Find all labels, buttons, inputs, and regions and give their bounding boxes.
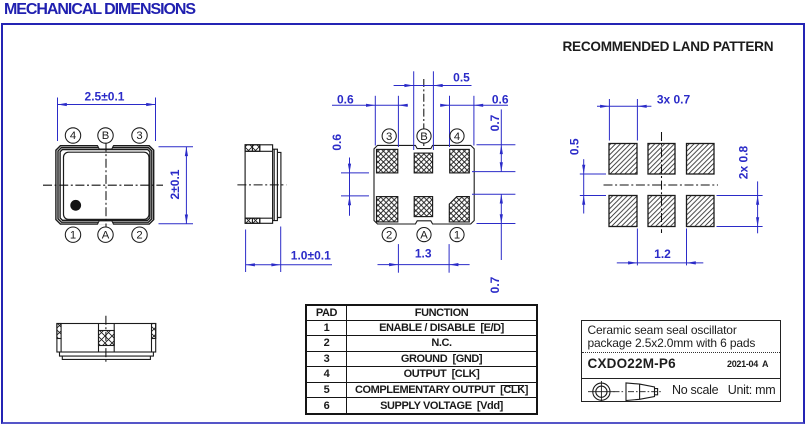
svg-text:B: B [102, 130, 110, 142]
dim 1.3 (bottom) [378, 244, 470, 273]
svg-text:3x 0.7: 3x 0.7 [657, 92, 691, 106]
dim 1.2 (bottom) [617, 229, 704, 266]
land pattern heading [563, 39, 774, 54]
dim 0.5 (left) [580, 159, 606, 213]
outline [374, 145, 474, 224]
svg-text:B: B [420, 131, 428, 143]
centerline [237, 184, 286, 186]
pads (cross hatched) [377, 149, 470, 222]
svg-text:0.7: 0.7 [488, 114, 502, 131]
no scale / unit [672, 383, 775, 397]
dim 0.6 (top-right) [441, 96, 509, 147]
center pad [99, 324, 115, 353]
solid separator [582, 378, 780, 379]
svg-text:0.5: 0.5 [568, 138, 582, 155]
svg-text:0.5: 0.5 [453, 71, 470, 85]
svg-text:1.2: 1.2 [654, 247, 671, 261]
svg-text:1: 1 [70, 229, 76, 241]
lid steps below [60, 352, 154, 356]
dim 2x 0.8 (right) [717, 181, 763, 233]
pin circles [382, 129, 464, 242]
centerlines [604, 184, 719, 186]
dim 2.5±0.1 [58, 98, 156, 142]
svg-text:2±0.1: 2±0.1 [168, 169, 182, 199]
svg-text:A: A [420, 230, 428, 242]
svg-text:0.6: 0.6 [337, 92, 354, 106]
svg-text:2.5±0.1: 2.5±0.1 [85, 90, 125, 104]
centerline vertical [105, 143, 107, 229]
svg-text:1.3: 1.3 [415, 247, 432, 261]
centerline [105, 316, 107, 364]
dim 0.6 (top-left) [332, 96, 408, 147]
svg-text:1.0±0.1: 1.0±0.1 [291, 249, 331, 263]
left castellation strip [57, 324, 61, 339]
dim 1.0±0.1 [246, 227, 332, 273]
pad function table [305, 304, 538, 415]
svg-text:3: 3 [386, 131, 392, 143]
svg-text:0.7: 0.7 [488, 276, 502, 293]
dotted separator [582, 352, 780, 353]
title block [581, 320, 781, 402]
svg-text:2: 2 [386, 230, 392, 242]
svg-text:0.6: 0.6 [492, 92, 509, 106]
dim 0.5 (top, center pad) [394, 71, 472, 150]
lid steps [273, 149, 278, 220]
date / rev [727, 359, 768, 369]
pin circles top: 4 B 3 [65, 128, 147, 243]
dim 2±0.1 [159, 147, 194, 224]
page title [4, 1, 195, 19]
vertical centerline above [423, 79, 425, 146]
dim 0.6 (left vertical, pad gap) [341, 158, 369, 216]
dim 0.7 (right bottom) [472, 194, 515, 260]
top seal band [245, 150, 273, 152]
svg-text:4: 4 [70, 130, 76, 142]
package body outline (3 nested lines, chamfered corners) [56, 146, 154, 224]
svg-text:2: 2 [136, 229, 142, 241]
svg-text:3: 3 [136, 130, 142, 142]
right castellation strip [152, 324, 156, 339]
centerline horizontal [43, 184, 163, 186]
svg-text:2x 0.8: 2x 0.8 [737, 145, 751, 179]
pin-1 index dot [70, 200, 81, 211]
description [588, 324, 756, 352]
pads (diagonal hatched) [609, 144, 714, 227]
part number [588, 356, 676, 371]
dim 3x 0.7 [597, 99, 651, 141]
bottom seal band [245, 217, 273, 219]
top center notch [97, 145, 113, 149]
svg-text:1: 1 [454, 230, 460, 242]
projection symbol [582, 377, 672, 401]
dim 0.7 (right top) [472, 109, 515, 171]
inner cavity rounded rect [64, 152, 150, 219]
svg-text:A: A [102, 229, 110, 241]
svg-text:0.6: 0.6 [330, 134, 344, 151]
bottom center notch [97, 221, 113, 225]
svg-text:4: 4 [454, 131, 460, 143]
